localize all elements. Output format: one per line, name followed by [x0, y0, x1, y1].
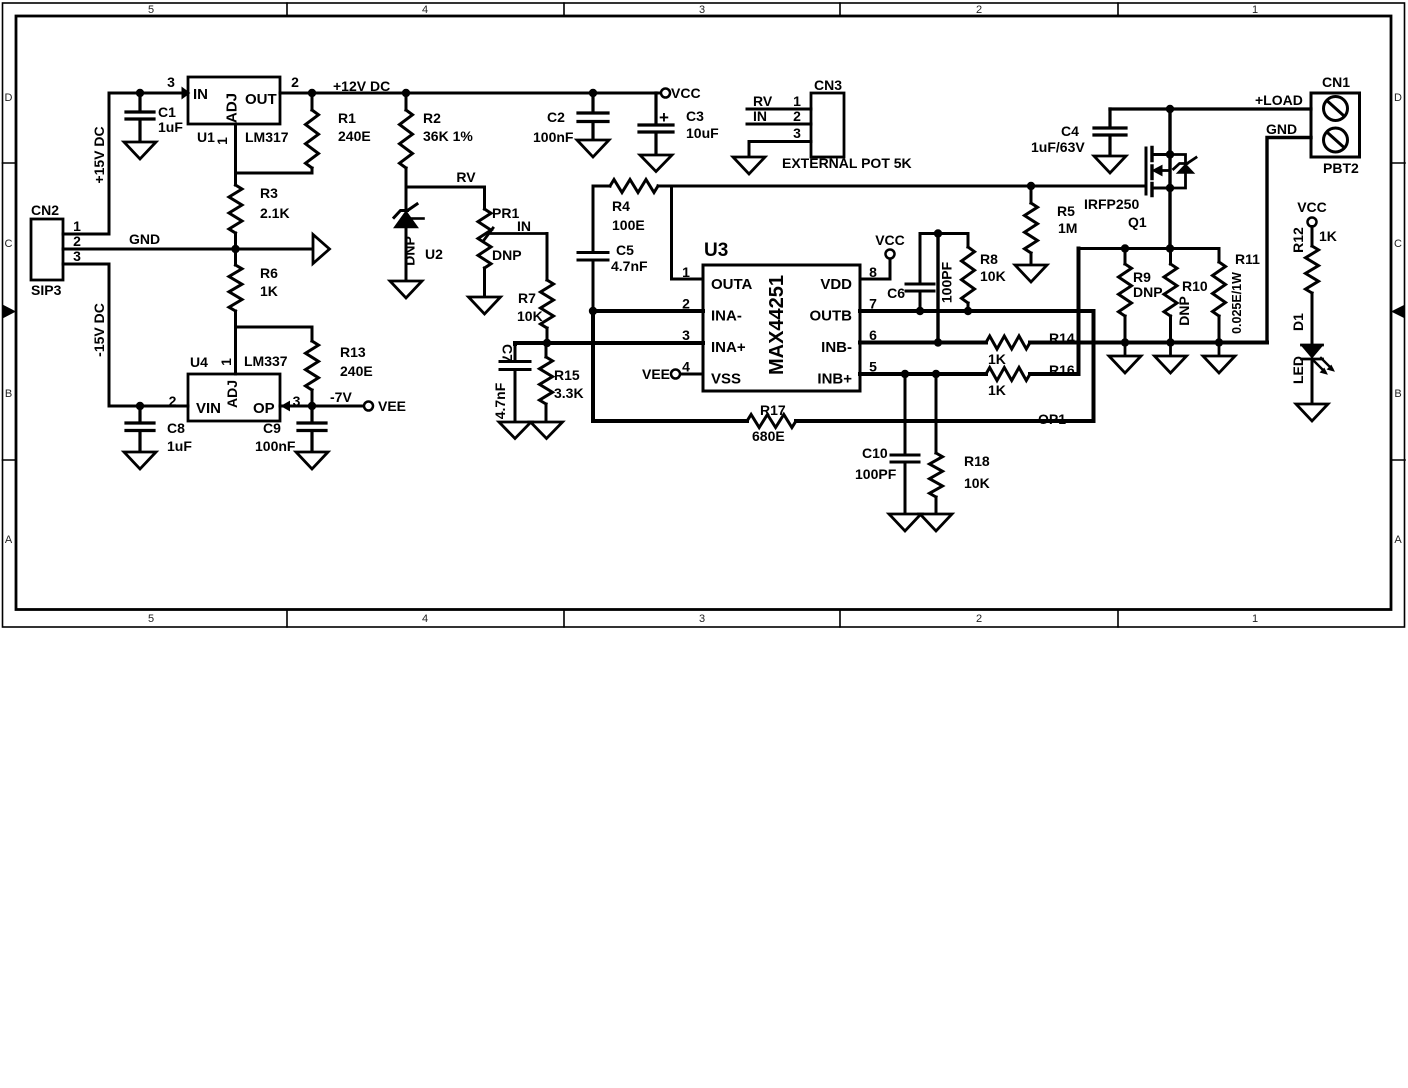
svg-text:OUTA: OUTA [711, 276, 753, 293]
resistor R15 [545, 343, 548, 422]
svg-text:OUT: OUT [245, 91, 277, 108]
svg-text:1: 1 [218, 358, 234, 366]
CN1 screw terminal 2 [1324, 128, 1348, 152]
svg-text:-7V: -7V [330, 389, 352, 405]
svg-text:+15V DC: +15V DC [91, 126, 107, 183]
ground at C2 [577, 140, 609, 157]
svg-text:10K: 10K [517, 308, 543, 324]
terminal circle VEE left [364, 402, 373, 411]
resistor R1 [311, 93, 314, 110]
zener diode U2 [394, 187, 417, 218]
wire CN3 pin1 RV stub [747, 108, 811, 111]
wire R3 to GND node [234, 233, 237, 249]
wire R17 left run [593, 419, 747, 423]
svg-text:5: 5 [148, 4, 154, 16]
svg-text:2: 2 [73, 233, 81, 249]
resistor R18 [935, 374, 938, 514]
svg-text:D: D [1394, 92, 1402, 104]
svg-text:INA+: INA+ [711, 339, 746, 356]
resistor R16 [986, 368, 1030, 381]
svg-text:2: 2 [976, 4, 982, 16]
svg-text:B: B [1394, 388, 1401, 400]
svg-text:2: 2 [976, 613, 982, 625]
svg-text:-15V DC: -15V DC [91, 303, 107, 357]
wire U2 anode to ground [405, 227, 408, 282]
transistor Q1 body arrow [1161, 169, 1171, 172]
wire CN2 pin3 to -15V riser [63, 263, 109, 266]
svg-text:MAX44251: MAX44251 [766, 275, 788, 375]
resistor R13 [306, 341, 319, 390]
svg-text:R11: R11 [1235, 251, 1260, 267]
wire +LOAD rail [1110, 107, 1311, 110]
svg-text:C10: C10 [862, 445, 888, 461]
svg-text:A: A [5, 534, 13, 546]
svg-text:C2: C2 [547, 109, 565, 125]
svg-text:5: 5 [869, 359, 877, 375]
svg-text:R13: R13 [340, 344, 366, 360]
resistor R3 [229, 185, 242, 233]
svg-text:C7: C7 [500, 344, 516, 362]
svg-text:3: 3 [699, 613, 705, 625]
wire RV node R2 to PR1 [406, 187, 485, 209]
LED D1 emission arrows [1314, 358, 1332, 372]
potentiometer PR1 [478, 209, 491, 268]
svg-text:1K: 1K [1319, 228, 1337, 244]
svg-text:C9: C9 [263, 420, 281, 436]
regulator U1 [188, 77, 280, 124]
svg-text:IN: IN [193, 86, 208, 103]
connector CN2 [31, 219, 63, 280]
svg-text:ADJ: ADJ [224, 93, 241, 123]
ground at C7 [499, 422, 531, 439]
transistor Q1 drain-source vertical [1168, 109, 1171, 249]
svg-text:10K: 10K [964, 475, 990, 491]
svg-text:CN3: CN3 [814, 77, 842, 93]
svg-text:U3: U3 [704, 240, 728, 261]
GND net open arrow [313, 235, 330, 264]
svg-text:INB-: INB- [821, 339, 852, 356]
svg-text:3: 3 [793, 125, 801, 141]
ground at D1 [1296, 404, 1328, 421]
ground at R18 [920, 514, 952, 531]
resistor R9 [1124, 249, 1127, 343]
svg-text:7: 7 [869, 296, 877, 312]
capacitor C5 [578, 186, 608, 311]
svg-text:R9: R9 [1133, 269, 1151, 285]
svg-text:LM317: LM317 [245, 129, 289, 145]
ground at R15 [531, 422, 563, 439]
svg-text:2.1K: 2.1K [260, 205, 290, 221]
resistor R4 [610, 180, 658, 193]
svg-text:GND: GND [1266, 121, 1297, 137]
svg-text:100E: 100E [612, 217, 645, 233]
wire CN1 GND [1267, 138, 1311, 343]
svg-text:OP1: OP1 [1038, 411, 1066, 427]
svg-text:+LOAD: +LOAD [1255, 92, 1303, 108]
svg-text:C1: C1 [158, 104, 176, 120]
svg-text:PR1: PR1 [492, 205, 519, 221]
ground at U2 [390, 281, 422, 298]
svg-text:10K: 10K [980, 268, 1006, 284]
capacitor C9 [298, 406, 326, 452]
svg-text:LED: LED [1290, 356, 1306, 384]
svg-text:VCC: VCC [875, 232, 905, 248]
svg-text:GND: GND [129, 231, 160, 247]
capacitor C1 [126, 93, 154, 142]
svg-text:OUTB: OUTB [810, 308, 853, 325]
capacitor C2 [578, 93, 608, 140]
resistor R5 [1030, 186, 1033, 265]
svg-text:VCC: VCC [671, 85, 701, 101]
transistor Q1 gate bar [1145, 148, 1148, 194]
svg-text:R10: R10 [1182, 278, 1208, 294]
ground at PR1 [469, 297, 501, 314]
wire R13 bottom to -7V node [311, 390, 314, 406]
wire +15V DC riser [108, 93, 111, 234]
wire IN net down to R7 [546, 234, 549, 281]
svg-text:5: 5 [148, 613, 154, 625]
svg-text:1: 1 [1252, 613, 1258, 625]
resistor R10 [1169, 249, 1172, 343]
svg-text:1: 1 [793, 93, 801, 109]
ground at C8 [124, 452, 156, 469]
connector CN3 [811, 93, 844, 157]
svg-text:R5: R5 [1057, 203, 1075, 219]
transistor Q1 drain stub [1152, 153, 1170, 156]
svg-text:C4: C4 [1061, 123, 1079, 139]
border column ticks bottom [287, 610, 1118, 628]
svg-text:4.7nF: 4.7nF [492, 382, 508, 419]
wire R7 bottom to INA+ line [546, 328, 549, 343]
wire -15V run to U4 VIN [109, 405, 188, 408]
wire R16 right to sense top node [1030, 249, 1079, 375]
svg-text:100nF: 100nF [255, 438, 296, 454]
wire pin1 branch down from rail [672, 186, 704, 279]
svg-text:PBT2: PBT2 [1323, 160, 1359, 176]
ground at C4 [1094, 156, 1126, 173]
wire feedback vertical to R17 [591, 311, 595, 421]
svg-text:2: 2 [291, 74, 299, 90]
svg-text:CN2: CN2 [31, 202, 59, 218]
svg-text:1: 1 [73, 218, 81, 234]
svg-text:C: C [1394, 238, 1402, 250]
capacitor C4 [1094, 109, 1126, 156]
border frame inner [16, 16, 1391, 610]
wire sense top node rail [1079, 247, 1220, 250]
wire INA+ pin3 [515, 343, 703, 344]
resistor R7 [541, 280, 554, 328]
svg-text:10uF: 10uF [686, 125, 719, 141]
resistor R17 [747, 415, 796, 428]
svg-text:VDD: VDD [820, 276, 852, 293]
svg-text:R7: R7 [518, 290, 536, 306]
wire INB- to top node [936, 234, 939, 343]
ground at C3 [640, 155, 672, 172]
svg-text:C8: C8 [167, 420, 185, 436]
U1 IN pin arrow [182, 88, 190, 99]
svg-text:C6: C6 [887, 285, 905, 301]
resistor R12 [1311, 227, 1314, 346]
svg-text:+: + [659, 108, 669, 127]
ground at C1 [124, 142, 156, 159]
svg-text:1: 1 [214, 137, 230, 145]
resistor R8 [967, 234, 970, 312]
svg-text:R12: R12 [1290, 227, 1306, 253]
border row ticks left [3, 163, 17, 460]
svg-text:2: 2 [793, 108, 801, 124]
svg-text:R6: R6 [260, 265, 278, 281]
junction dots [136, 89, 144, 97]
wire VSS pin4 to VEE [680, 373, 703, 376]
svg-text:2: 2 [169, 393, 177, 409]
svg-text:DNP: DNP [1176, 296, 1192, 326]
svg-text:DNP: DNP [1133, 284, 1163, 300]
wire U1 OUT +12V rail [280, 92, 661, 95]
svg-text:INA-: INA- [711, 308, 742, 325]
svg-text:240E: 240E [340, 363, 373, 379]
wire output rail OUTA to gate [593, 185, 1146, 188]
capacitor C10 [891, 374, 919, 514]
svg-text:1: 1 [1252, 4, 1258, 16]
wire -15V DC riser [108, 264, 111, 406]
svg-text:RV: RV [753, 93, 773, 109]
regulator U4 [188, 374, 280, 421]
capacitor C3 polarized [639, 93, 673, 155]
svg-text:4: 4 [422, 4, 428, 16]
wire INA- pin2 [593, 309, 703, 313]
svg-text:R8: R8 [980, 251, 998, 267]
svg-text:680E: 680E [752, 428, 785, 444]
resistor R2 [405, 93, 408, 187]
svg-text:R3: R3 [260, 185, 278, 201]
capacitor C8 [126, 406, 154, 452]
border mid arrow right [1391, 305, 1405, 319]
transistor Q1 source stub [1152, 187, 1170, 190]
svg-text:R4: R4 [612, 198, 630, 214]
svg-text:DNP: DNP [492, 247, 522, 263]
svg-text:3: 3 [167, 74, 175, 90]
wire PR1 bottom to ground [483, 268, 486, 297]
wire R6 to U4 ADJ and R13 top [236, 327, 313, 374]
wire R14 right run to CN1 GND riser [1030, 341, 1267, 345]
U4 OP pin arrow [282, 402, 290, 411]
svg-text:C: C [5, 238, 13, 250]
svg-text:VSS: VSS [711, 371, 741, 388]
svg-text:OP: OP [253, 400, 275, 417]
svg-text:ADJ: ADJ [224, 380, 240, 408]
svg-text:1uF/63V: 1uF/63V [1031, 139, 1085, 155]
svg-text:3: 3 [682, 327, 690, 343]
wire CN2 pin2 GND run [63, 248, 313, 251]
svg-text:VEE: VEE [642, 366, 670, 382]
wire U4 OP to VEE terminal [280, 405, 364, 408]
resistor R6 [234, 249, 237, 327]
wire CN3 pin3 to ground [749, 142, 811, 158]
transistor Q1 channel dashes [1150, 148, 1153, 196]
svg-text:1K: 1K [988, 382, 1006, 398]
LED D1 [1302, 345, 1323, 358]
wire CN3 pin2 IN stub [747, 123, 811, 126]
svg-text:IN: IN [517, 218, 531, 234]
wire VDD pin8 to VCC [860, 259, 890, 280]
wire INB- pin6 [860, 341, 986, 345]
svg-text:3.3K: 3.3K [554, 385, 584, 401]
svg-text:4.7nF: 4.7nF [611, 258, 648, 274]
capacitor C6 [906, 234, 934, 312]
svg-text:CN1: CN1 [1322, 74, 1350, 90]
svg-text:4: 4 [422, 613, 428, 625]
svg-text:R15: R15 [554, 367, 580, 383]
svg-text:U4: U4 [190, 354, 208, 370]
ground at R11 [1203, 343, 1235, 374]
wire D1 to ground [1311, 359, 1314, 404]
wire U1 ADJ down [234, 124, 237, 185]
svg-text:3: 3 [293, 393, 301, 409]
ground at R10 [1155, 343, 1187, 374]
ground at C9 [296, 452, 328, 469]
svg-text:IN: IN [753, 108, 767, 124]
svg-text:1K: 1K [988, 351, 1006, 367]
svg-text:C5: C5 [616, 242, 634, 258]
svg-text:100PF: 100PF [939, 261, 955, 303]
resistor R11 [1218, 249, 1221, 343]
op-amp U3 [703, 265, 860, 391]
svg-text:36K 1%: 36K 1% [423, 128, 473, 144]
capacitor C7 [500, 344, 530, 422]
svg-text:R18: R18 [964, 453, 990, 469]
svg-text:B: B [5, 388, 12, 400]
svg-text:VIN: VIN [196, 400, 221, 417]
Q1 body diode [1170, 155, 1196, 189]
svg-text:R17: R17 [760, 402, 786, 418]
ground at R5 [1015, 265, 1047, 282]
PR1 wiper tap [484, 228, 547, 240]
wire +15V top run to U1 IN [109, 92, 182, 95]
wire C6 R8 top link [920, 232, 968, 235]
svg-text:VEE: VEE [378, 398, 406, 414]
svg-text:IRFP250: IRFP250 [1084, 196, 1139, 212]
wire CN2 pin1 to +15V riser [63, 233, 109, 236]
ground at R9 [1109, 343, 1141, 374]
svg-text:1uF: 1uF [158, 119, 183, 135]
svg-text:240E: 240E [338, 128, 371, 144]
svg-text:A: A [1394, 534, 1402, 546]
svg-text:U2: U2 [425, 246, 443, 262]
wire R17 right run to OUTB [796, 311, 1094, 421]
svg-text:R16: R16 [1049, 362, 1075, 378]
svg-text:0.025E/1W: 0.025E/1W [1230, 272, 1244, 334]
svg-text:RV: RV [456, 169, 476, 185]
svg-text:SIP3: SIP3 [31, 282, 62, 298]
svg-text:100nF: 100nF [533, 129, 574, 145]
svg-text:100PF: 100PF [855, 466, 897, 482]
wire OUTB pin7 [860, 309, 1094, 313]
svg-text:1: 1 [682, 264, 690, 280]
border row ticks right [1391, 163, 1405, 460]
terminal circle VCC main [661, 89, 670, 98]
svg-text:1uF: 1uF [167, 438, 192, 454]
svg-text:1M: 1M [1058, 220, 1077, 236]
svg-text:1K: 1K [260, 283, 278, 299]
svg-text:D1: D1 [1290, 313, 1306, 331]
connector CN1 [1311, 93, 1360, 157]
svg-text:4: 4 [682, 359, 690, 375]
svg-text:8: 8 [869, 264, 877, 280]
svg-text:EXTERNAL POT 5K: EXTERNAL POT 5K [782, 155, 912, 171]
svg-text:DNP: DNP [402, 236, 418, 266]
svg-text:INB+: INB+ [817, 371, 852, 388]
ground at CN3 [733, 157, 765, 174]
svg-text:R14: R14 [1049, 330, 1075, 346]
ground at C10 [889, 514, 921, 531]
svg-text:D: D [5, 92, 13, 104]
svg-text:3: 3 [73, 248, 81, 264]
svg-text:3: 3 [699, 4, 705, 16]
svg-text:VCC: VCC [1297, 199, 1327, 215]
wire INB+ pin5 [860, 372, 986, 376]
CN1 screw terminal 1 [1324, 97, 1348, 121]
svg-text:R2: R2 [423, 110, 441, 126]
border column ticks top [287, 3, 1118, 16]
terminal circle VEE pin4 [671, 370, 680, 379]
svg-text:LM337: LM337 [244, 353, 288, 369]
terminal circle VCC pin8 [886, 250, 895, 259]
terminal circle VCC at R12 [1308, 218, 1317, 227]
resistor R14 [986, 336, 1030, 349]
wire R1 bottom to ADJ node [236, 168, 313, 173]
border mid arrow left [3, 305, 17, 319]
svg-text:Q1: Q1 [1128, 214, 1147, 230]
svg-text:6: 6 [869, 327, 877, 343]
svg-text:U1: U1 [197, 129, 215, 145]
svg-text:R1: R1 [338, 110, 356, 126]
border frame outer [3, 3, 1405, 627]
svg-text:+12V DC: +12V DC [333, 78, 390, 94]
svg-text:2: 2 [682, 296, 690, 312]
svg-text:C3: C3 [686, 108, 704, 124]
